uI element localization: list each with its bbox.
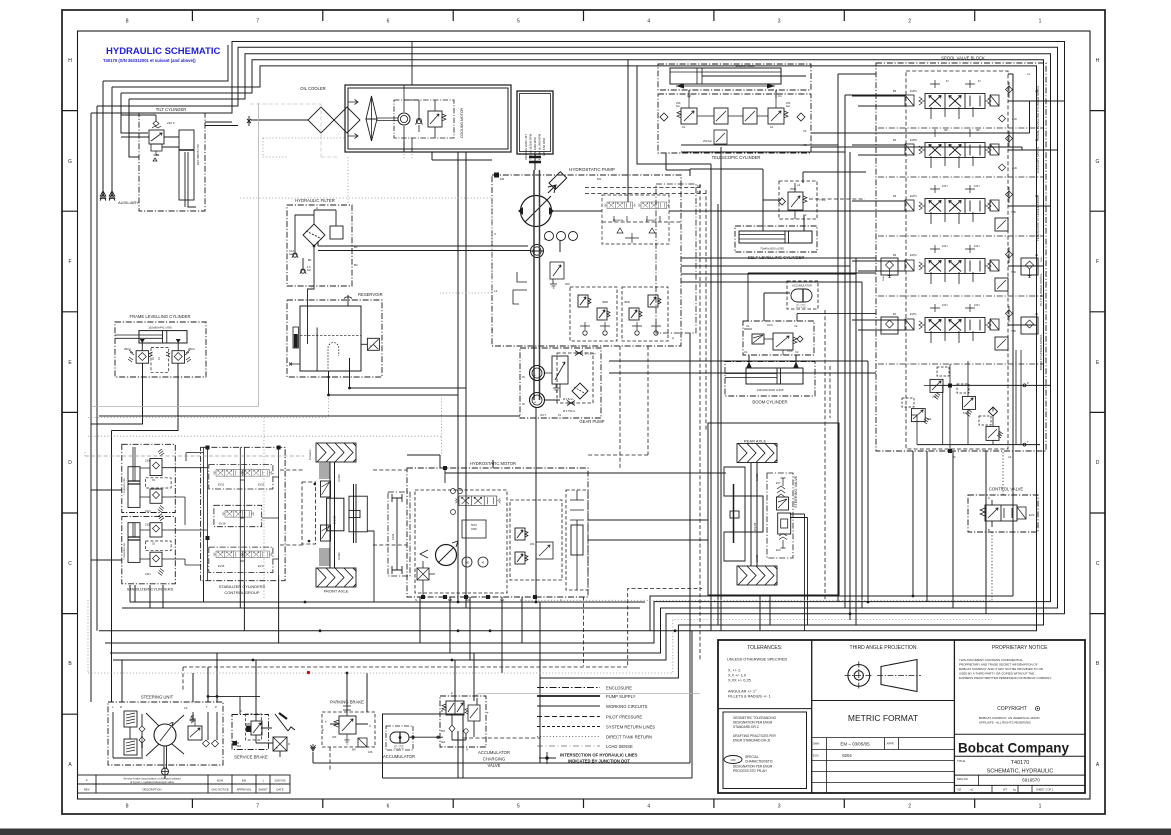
svg-text:DESIGNATION PER ENGR: DESIGNATION PER ENGR	[733, 765, 773, 769]
svg-text:280 b: 280 b	[188, 347, 195, 351]
svg-text:102.88: 102.88	[333, 515, 337, 524]
svg-text:AFFILIATE - ALL RIGHTS RES: AFFILIATE - ALL RIGHTS RESERVED	[979, 721, 1032, 725]
svg-text:PILOT PRESSURE: PILOT PRESSURE	[606, 715, 642, 720]
svg-text:48 l: 48 l	[944, 128, 949, 132]
svg-text:DET 98/P/5.7 B6: DET 98/P/5.7 B6	[196, 144, 200, 165]
svg-text:GEAR PUMP: GEAR PUMP	[579, 419, 604, 424]
svg-text:48 l: 48 l	[976, 128, 981, 132]
svg-text:M-W 2480 RPM: M-W 2480 RPM	[533, 137, 537, 157]
svg-text:kg: kg	[1013, 788, 1016, 792]
svg-text:8: 8	[126, 804, 129, 810]
svg-text:MA: MA	[237, 744, 241, 748]
svg-text:B1: B1	[308, 258, 312, 262]
svg-text:ACCUMULATOR: ACCUMULATOR	[478, 750, 510, 755]
svg-text:STEERING VALVE: STEERING VALVE	[794, 475, 798, 508]
svg-text:REV: REV	[84, 788, 90, 792]
svg-text:4.1: 4.1	[533, 375, 537, 377]
svg-text:EV16: EV16	[218, 564, 225, 568]
svg-text:IN: IN	[522, 375, 525, 379]
svg-text:PROPRIETARY AND TRADE SECRET I: PROPRIETARY AND TRADE SECRET INFORMATION…	[959, 663, 1038, 667]
svg-text:EV6: EV6	[776, 549, 781, 552]
svg-text:Y: Y	[311, 285, 313, 289]
svg-text:A: A	[466, 748, 468, 752]
svg-text:B: B	[1096, 661, 1100, 667]
svg-text:ACCUMULATOR: ACCUMULATOR	[383, 754, 415, 759]
svg-text:EV18: EV18	[219, 522, 226, 526]
svg-text:DRAFTING PRACTICES PER: DRAFTING PRACTICES PER	[733, 734, 777, 738]
svg-text:3/1: 3/1	[156, 154, 160, 157]
svg-text:5: 5	[517, 804, 520, 810]
svg-text:210b: 210b	[1041, 256, 1043, 262]
svg-text:BOOM CYLINDER: BOOM CYLINDER	[752, 400, 787, 405]
svg-text:SHEET: SHEET	[258, 788, 268, 792]
svg-text:B4: B4	[893, 138, 897, 142]
svg-text:HYDRAULIC FILTER: HYDRAULIC FILTER	[295, 198, 334, 203]
svg-text:100 l: 100 l	[942, 184, 948, 188]
svg-text:16.000: 16.000	[756, 554, 759, 562]
svg-text:F: F	[68, 259, 71, 265]
svg-text:A: A	[240, 709, 242, 713]
svg-text:CHG NOTICE: CHG NOTICE	[211, 788, 229, 792]
svg-text:H: H	[1096, 58, 1100, 64]
svg-text:EVP1: EVP1	[910, 312, 917, 316]
svg-text:GEOMETRIC TOLERANCING: GEOMETRIC TOLERANCING	[733, 716, 777, 720]
svg-text:CONTROL GROUP: CONTROL GROUP	[224, 590, 260, 595]
svg-text:ACCUMULATOR: ACCUMULATOR	[792, 284, 812, 288]
svg-text:DWN: DWN	[813, 742, 819, 746]
svg-text:210 b: 210 b	[145, 510, 152, 513]
svg-text:ENCLOSURE: ENCLOSURE	[606, 686, 632, 691]
svg-text:7.6b: 7.6b	[1011, 270, 1017, 274]
svg-text:Ø 1.2mm: Ø 1.2mm	[585, 352, 596, 356]
svg-text:10b: 10b	[368, 750, 373, 754]
svg-text:CHARACTERISTIC: CHARACTERISTIC	[745, 760, 774, 764]
svg-text:210b: 210b	[883, 275, 885, 281]
svg-text:X: X	[494, 232, 496, 236]
svg-text:240: 240	[999, 431, 1002, 436]
svg-text:Forward: Forward	[646, 218, 657, 222]
svg-text:50XX: 50XX	[471, 524, 477, 527]
svg-text:B2: B2	[893, 253, 897, 257]
svg-text:MX: MX	[441, 729, 445, 733]
svg-text:FRONT AXLE: FRONT AXLE	[324, 589, 349, 594]
svg-text:IN: IN	[522, 402, 525, 406]
svg-text:BOBCAT COMPANY AND IT MAY NOT: BOBCAT COMPANY AND IT MAY NOT BE PROVIDE…	[959, 667, 1044, 671]
svg-text:45: 45	[482, 562, 485, 565]
svg-text:5: 5	[517, 19, 520, 25]
svg-text:L3: L3	[797, 183, 801, 187]
svg-text:6204: 6204	[217, 779, 224, 783]
svg-text:D: D	[288, 742, 290, 746]
svg-text:Ø 0.75mm: Ø 0.75mm	[563, 409, 575, 413]
svg-text:SCHEMATIC, HYDRAULIC: SCHEMATIC, HYDRAULIC	[987, 769, 1054, 775]
svg-text:E: E	[68, 360, 72, 366]
svg-text:APPROVAL: APPROVAL	[237, 788, 252, 792]
svg-text:PERKINS 1104C-44T: PERKINS 1104C-44T	[524, 134, 528, 160]
svg-text:P: P	[215, 705, 217, 709]
svg-text:4/1: 4/1	[682, 126, 686, 129]
svg-text:RESERVOIR: RESERVOIR	[358, 292, 383, 297]
svg-text:STEERING UNIT: STEERING UNIT	[141, 695, 174, 700]
svg-text:bar: bar	[676, 104, 680, 108]
svg-text:8 l: 8 l	[946, 79, 949, 83]
svg-text:HYDROSTATIC PUMP: HYDROSTATIC PUMP	[569, 167, 615, 172]
svg-text:B2: B2	[354, 263, 358, 267]
svg-text:8 l: 8 l	[978, 79, 981, 83]
svg-text:MIN 8 60 RPM: MIN 8 60 RPM	[542, 137, 546, 155]
svg-text:HYDRAULIC SCHEMATIC: HYDRAULIC SCHEMATIC	[106, 46, 220, 57]
svg-text:G: G	[1096, 159, 1100, 165]
svg-text:TITLE: TITLE	[957, 759, 965, 763]
svg-text:16.000: 16.000	[338, 552, 341, 560]
svg-text:DIRECT TANK RETURN: DIRECT TANK RETURN	[606, 735, 652, 740]
svg-text:EVP9: EVP9	[910, 89, 917, 93]
svg-text:T: T	[206, 705, 208, 709]
svg-text:8: 8	[126, 19, 129, 25]
svg-text:370b: 370b	[787, 350, 793, 353]
svg-text:COPYRIGHT: COPYRIGHT	[997, 706, 1027, 712]
svg-text:210b: 210b	[145, 524, 151, 527]
svg-text:450b: 450b	[624, 300, 631, 304]
svg-text:C1: C1	[778, 94, 782, 98]
svg-text:C: C	[1096, 561, 1100, 567]
svg-text:BOBCAT COMPANY, AN INGERSOLL-R: BOBCAT COMPANY, AN INGERSOLL-RAND	[979, 716, 1040, 720]
svg-text:STANDARD DR-C: STANDARD DR-C	[733, 725, 760, 729]
svg-text:OIL COOLER: OIL COOLER	[300, 86, 325, 91]
svg-text:4: 4	[647, 19, 650, 25]
svg-text:MX: MX	[352, 748, 356, 752]
svg-text:D: D	[68, 460, 72, 466]
svg-text:MA: MA	[441, 740, 445, 744]
svg-text:X: X	[276, 746, 278, 750]
svg-text:DESCRIPTION: DESCRIPTION	[142, 788, 161, 792]
svg-text:X. +/- 2: X. +/- 2	[728, 669, 740, 673]
svg-text:LOAD SENSE: LOAD SENSE	[606, 744, 633, 749]
svg-text:TILT CYLINDER: TILT CYLINDER	[156, 107, 187, 112]
svg-text:2: 2	[908, 19, 911, 25]
svg-text:B: B	[988, 528, 990, 532]
svg-text:SG: SG	[466, 598, 470, 602]
svg-text:N: N	[415, 598, 417, 602]
svg-text:110x80x442 x780: 110x80x442 x780	[148, 326, 172, 330]
svg-text:6916570: 6916570	[1022, 778, 1040, 783]
svg-text:20/07/05: 20/07/05	[275, 779, 286, 783]
svg-text:M2: M2	[500, 177, 504, 181]
svg-text:CHARGING: CHARGING	[483, 757, 506, 762]
svg-text:T2 B4/568/6 CED: T2 B4/568/6 CED	[124, 542, 126, 560]
svg-text:100 l: 100 l	[942, 244, 948, 248]
svg-text:140x100x1640 x1335: 140x100x1640 x1335	[757, 388, 784, 392]
svg-text:1: 1	[262, 779, 264, 783]
svg-text:D: D	[1096, 460, 1100, 466]
svg-text:C1: C1	[744, 350, 748, 354]
svg-text:V0 = 0.75 l: V0 = 0.75 l	[796, 307, 807, 309]
svg-text:EM – 03/05/05: EM – 03/05/05	[840, 742, 870, 747]
svg-text:450b: 450b	[602, 300, 609, 304]
svg-text:16.000: 16.000	[756, 473, 759, 481]
svg-text:3/1: 3/1	[152, 479, 156, 482]
svg-text:70x40x1630 x1365: 70x40x1630 x1365	[760, 247, 784, 251]
svg-text:4: 4	[647, 804, 650, 810]
svg-text:LS: LS	[1008, 455, 1012, 459]
svg-text:V1: V1	[746, 324, 750, 328]
svg-text:APPR: APPR	[887, 742, 894, 746]
svg-text:B3: B3	[893, 194, 897, 198]
svg-text:125/360/55: 125/360/55	[141, 735, 144, 748]
svg-text:VALVE: VALVE	[488, 763, 501, 768]
svg-text:T: T	[325, 720, 327, 724]
svg-text:EXPRESS PRIOR WRITTEN PERMISSI: EXPRESS PRIOR WRITTEN PERMISSION OF BOBC…	[959, 676, 1052, 680]
svg-text:U: U	[370, 344, 372, 348]
svg-text:EV21: EV21	[218, 483, 225, 487]
svg-text:B: B	[441, 709, 443, 713]
svg-text:EVP2: EVP2	[910, 253, 917, 257]
svg-text:20b: 20b	[565, 282, 570, 286]
svg-text:EVP3: EVP3	[910, 194, 917, 198]
svg-text:M1: M1	[597, 177, 601, 181]
svg-text:V1: V1	[803, 129, 807, 133]
svg-text:A: A	[672, 336, 674, 340]
svg-text:DATE: DATE	[276, 788, 283, 792]
svg-text:6204: 6204	[842, 753, 852, 758]
svg-text:WORKING CIRCUITS: WORKING CIRCUITS	[606, 704, 648, 709]
svg-text:L2: L2	[494, 289, 498, 293]
svg-text:FRAME LEVELLING CYLINDER: FRAME LEVELLING CYLINDER	[130, 314, 191, 319]
svg-text:L5: L5	[558, 413, 562, 417]
svg-text:Forward ↑: Forward ↑	[308, 448, 312, 460]
svg-text:178b: 178b	[190, 718, 196, 722]
svg-text:B: B	[68, 661, 72, 667]
svg-text:7: 7	[256, 19, 259, 25]
svg-text:3/1: 3/1	[152, 356, 155, 360]
svg-text:20b: 20b	[932, 395, 937, 399]
svg-text:3/1: 3/1	[152, 543, 156, 546]
svg-text:SPECIAL: SPECIAL	[745, 755, 759, 759]
svg-text:TELESCOPIC CYLINDER: TELESCOPIC CYLINDER	[712, 155, 761, 160]
svg-text:280 b: 280 b	[124, 347, 131, 351]
svg-text:EV7: EV7	[776, 482, 781, 485]
svg-text:ACC: ACC	[767, 323, 773, 327]
svg-text:THIRD ANGLE PROJECTION: THIRD ANGLE PROJECTION	[850, 645, 917, 651]
svg-text:E: E	[1096, 360, 1100, 366]
svg-text:1: 1	[1039, 804, 1042, 810]
svg-text:210 b: 210 b	[145, 573, 152, 576]
svg-text:of A port + updated telescopic: of A port + updated telescopic valve	[130, 780, 175, 784]
svg-text:A: A	[86, 778, 88, 782]
svg-text:bar: bar	[786, 104, 790, 108]
svg-text:TILT CYLINDER SPOOL: TILT CYLINDER SPOOL	[1039, 273, 1043, 306]
svg-text:L1: L1	[1027, 72, 1031, 76]
svg-text:250b: 250b	[790, 187, 797, 191]
svg-text:P: P	[1027, 381, 1029, 385]
svg-text:THIS DOCUMENT CONTAINS CONFIDE: THIS DOCUMENT CONTAINS CONFIDENTIAL,	[959, 658, 1024, 662]
svg-text:DWG NO.: DWG NO.	[957, 777, 969, 781]
svg-text:6: 6	[387, 804, 390, 810]
svg-text:WT: WT	[1003, 788, 1007, 792]
svg-text:7: 7	[256, 804, 259, 810]
svg-text:LS: LS	[474, 694, 478, 698]
svg-text:CONTROL VALVE: CONTROL VALVE	[989, 487, 1024, 492]
svg-text:COOLING MOTOR: COOLING MOTOR	[460, 107, 464, 138]
svg-text:V2: V2	[794, 324, 798, 328]
svg-text:1: 1	[1039, 19, 1042, 25]
svg-text:C2: C2	[795, 350, 799, 354]
svg-text:FILLETS & RADIUS +/- 1: FILLETS & RADIUS +/- 1	[728, 695, 771, 699]
svg-text:H: H	[68, 58, 72, 64]
svg-text:Reverse: Reverse	[613, 218, 624, 222]
svg-text:AUXILIARY: AUXILIARY	[118, 200, 139, 205]
svg-text:2: 2	[908, 804, 911, 810]
svg-text:R: R	[120, 705, 122, 709]
svg-text:T: T	[1027, 440, 1029, 444]
svg-text:B5: B5	[893, 89, 897, 93]
svg-text:6: 6	[387, 19, 390, 25]
svg-text:STABILIZER CYLINDERS: STABILIZER CYLINDERS	[219, 584, 266, 589]
svg-text:DESIGNATION PER ENGR: DESIGNATION PER ENGR	[733, 721, 773, 725]
svg-text:L: L	[112, 705, 114, 709]
svg-text:3/1: 3/1	[158, 356, 161, 360]
svg-text:X.X +/- 1.0: X.X +/- 1.0	[728, 674, 746, 678]
svg-text:G: G	[68, 159, 72, 165]
svg-text:102.88: 102.88	[753, 522, 757, 531]
svg-text:PROCESS STD PR-AH: PROCESS STD PR-AH	[733, 769, 767, 773]
svg-text:30b: 30b	[927, 417, 932, 421]
svg-text:EM: EM	[242, 779, 247, 783]
svg-text:100 l: 100 l	[974, 184, 980, 188]
svg-text:3: 3	[778, 19, 781, 25]
svg-text:V0 = 0.75 l: V0 = 0.75 l	[394, 748, 405, 750]
svg-text:20b: 20b	[530, 542, 535, 546]
svg-text:REAR AXLE: REAR AXLE	[744, 439, 767, 444]
svg-text:7.6b: 7.6b	[1011, 329, 1017, 333]
svg-text:USED BY A THIRD PARTY OR COPIE: USED BY A THIRD PARTY OR COPIED WITHOUT …	[959, 672, 1034, 676]
svg-text:16.000: 16.000	[338, 474, 341, 482]
svg-text:A: A	[68, 762, 72, 768]
svg-text:F: F	[1096, 259, 1099, 265]
svg-text:X: X	[369, 724, 371, 728]
svg-text:P: P	[451, 692, 453, 696]
svg-text:ANGULAR +/-: ANGULAR +/- 1°	[728, 690, 757, 694]
svg-text:16: 16	[534, 402, 537, 404]
svg-text:UNLESS OTHERWISE SPECIFIED: UNLESS OTHERWISE SPECIFIED	[727, 658, 788, 662]
svg-text:100 l: 100 l	[974, 303, 980, 307]
svg-text:P: P	[322, 728, 324, 732]
svg-text:Ø 0.6mm: Ø 0.6mm	[563, 397, 574, 401]
svg-text:T40170: T40170	[1011, 760, 1030, 766]
svg-text:1Ø.Ø: 1Ø.Ø	[391, 534, 395, 540]
svg-text:T40170 (S/N 363312001 et suiva: T40170 (S/N 363312001 et suivant (and ab…	[103, 58, 196, 63]
svg-text:m2: m2	[970, 788, 974, 792]
svg-text:8.8b: 8.8b	[963, 411, 969, 415]
svg-text:bar: bar	[307, 268, 311, 272]
svg-text:20b: 20b	[332, 735, 337, 739]
svg-text:INTERSECTION OF HYDRAULIC LINE: INTERSECTION OF HYDRAULIC LINES	[560, 753, 638, 758]
svg-text:X.XX +/- 0.25: X.XX +/- 0.25	[728, 679, 751, 683]
svg-text:EV3: EV3	[1029, 513, 1035, 517]
svg-text:210 b: 210 b	[167, 121, 175, 125]
svg-text:OUT: OUT	[540, 413, 546, 417]
svg-text:200 bar: 200 bar	[703, 139, 712, 143]
svg-text:MB: MB	[246, 722, 250, 726]
svg-text:LS: LS	[184, 706, 188, 710]
svg-text:T 264/568/5 CED: T 264/568/5 CED	[124, 478, 126, 495]
svg-text:SHEET 1 OF 1: SHEET 1 OF 1	[1036, 788, 1054, 792]
svg-text:SYSTEM RETURN LINES: SYSTEM RETURN LINES	[606, 725, 655, 730]
svg-text:B1: B1	[893, 312, 897, 316]
svg-text:T: T	[487, 711, 489, 715]
svg-text:A: A	[1096, 762, 1100, 768]
svg-text:7.6b: 7.6b	[1011, 210, 1017, 214]
svg-text:3: 3	[778, 804, 781, 810]
svg-text:EVP8: EVP8	[910, 138, 917, 142]
svg-text:TOLERANCES:: TOLERANCES:	[747, 645, 782, 651]
svg-text:4/1: 4/1	[770, 126, 774, 129]
svg-text:GIM: GIM	[731, 758, 736, 762]
svg-text:SERVICE BRAKE: SERVICE BRAKE	[234, 755, 268, 760]
svg-text:100 l: 100 l	[942, 303, 948, 307]
svg-text:ENGR STANDARD DR-J2: ENGR STANDARD DR-J2	[733, 739, 771, 743]
svg-text:210b: 210b	[145, 460, 151, 463]
svg-text:DISP: DISP	[471, 528, 477, 531]
svg-text:ECN: ECN	[813, 754, 819, 758]
svg-text:PROPRIETARY NOTICE: PROPRIETARY NOTICE	[992, 645, 1048, 651]
svg-text:METRIC FORMAT: METRIC FORMAT	[848, 713, 918, 723]
svg-text:BOOM CYLINDER SPOOL: BOOM CYLINDER SPOOL	[1039, 333, 1043, 370]
svg-text:SIZ: SIZ	[957, 788, 961, 792]
svg-text:A: A	[316, 206, 318, 210]
svg-text:100 l: 100 l	[974, 244, 980, 248]
svg-text:Bobcat Company: Bobcat Company	[958, 741, 1070, 756]
svg-text:C: C	[68, 561, 72, 567]
svg-text:A: A	[988, 496, 990, 500]
svg-text:PUMP SUPPLY: PUMP SUPPLY	[606, 694, 636, 699]
svg-text:bar: bar	[289, 252, 293, 256]
